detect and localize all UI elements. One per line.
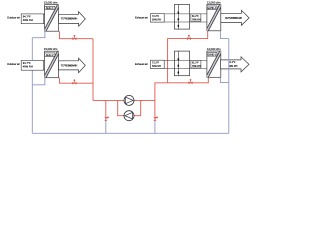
wire duct connector 1 — [43, 14, 44, 23]
AHU-2 wheel diagonal — [43, 50, 60, 79]
ERU-2 wheel diagonal — [206, 50, 223, 79]
valve V2 — [72, 79, 76, 84]
svg-text:61.2°F: 61.2°F — [192, 16, 199, 18]
supply arrow 1 — [59, 12, 86, 27]
AHU-2 casing — [45, 51, 59, 77]
wire drain tails — [106, 121, 155, 133]
wire duct connector 2 — [43, 61, 44, 70]
wire right drain drop — [154, 100, 156, 116]
AHU-2 label box — [45, 53, 55, 57]
AHU-1 wheel diagonal — [43, 3, 60, 32]
svg-text:EAHU-1: EAHU-1 — [208, 7, 217, 10]
svg-text:49% RH: 49% RH — [23, 18, 33, 22]
wire exhaust duct lines 1 — [150, 14, 207, 22]
svg-text:94.7°F: 94.7°F — [23, 15, 31, 19]
svg-text:50% RH: 50% RH — [152, 65, 161, 68]
svg-text:15,000 cfm: 15,000 cfm — [44, 47, 58, 51]
ERU-1 wheel diagonal — [206, 3, 223, 32]
node EA state box 2 — [150, 60, 164, 68]
coil C2 tube line — [177, 51, 179, 76]
svg-text:76% RH: 76% RH — [192, 20, 201, 22]
coil C1 casing — [174, 5, 189, 30]
AHU-1 casing — [45, 5, 59, 32]
ERU-1 label box — [207, 6, 217, 10]
coil C1 tube line — [177, 5, 179, 30]
node OA state box 1 — [21, 14, 43, 24]
svg-text:12,000 cfm: 12,000 cfm — [207, 47, 221, 51]
svg-text:12,000 cfm: 12,000 cfm — [207, 1, 221, 5]
svg-text:61.2°F: 61.2°F — [192, 63, 199, 65]
wire AHU-2 coil return — [32, 78, 45, 85]
wire main supply header — [93, 99, 155, 101]
ERU-2 casing — [207, 51, 221, 77]
exhaust arrow 1 — [221, 10, 249, 25]
wire left drain drop — [105, 100, 107, 116]
svg-text:Outdoor air: Outdoor air — [7, 62, 20, 66]
coil C2 casing — [174, 51, 189, 76]
wire riser to ERU-2 — [155, 77, 208, 100]
coil C1 diamonds — [177, 11, 179, 28]
ERU-2 label box — [207, 53, 217, 57]
valve V4 — [189, 79, 193, 84]
svg-text:77.7°F/DB/65% RH: 77.7°F/DB/65% RH — [61, 18, 78, 21]
wire AHU-1 coil supply — [60, 31, 94, 39]
svg-text:Exhaust air: Exhaust air — [135, 62, 148, 66]
svg-text:49% RH: 49% RH — [23, 65, 33, 69]
svg-text:77.7°F/DB/65% RH: 77.7°F/DB/65% RH — [61, 64, 78, 67]
wire left return main — [31, 38, 33, 134]
valve V3 — [187, 35, 191, 40]
ERU-1 casing — [207, 4, 221, 30]
svg-text:AHU-1: AHU-1 — [46, 6, 54, 10]
node EA state box 1 — [150, 14, 164, 22]
svg-text:94.7°F: 94.7°F — [23, 61, 31, 65]
svg-text:50% RH: 50% RH — [152, 19, 161, 22]
pump P2 — [124, 111, 134, 121]
AHU-1 label box — [45, 6, 55, 10]
node mid state box 2 — [191, 60, 201, 68]
node mid state box 1 — [191, 14, 201, 22]
svg-text:AHU-2: AHU-2 — [46, 53, 54, 57]
exhaust arrow 2 — [221, 57, 250, 72]
valve V6 — [153, 117, 158, 121]
svg-text:76% RH: 76% RH — [192, 66, 201, 68]
valve V1 — [72, 35, 76, 40]
supply arrow 2 — [59, 58, 86, 73]
wire AHU-2 coil supply — [60, 78, 94, 84]
wire bottom return main — [32, 132, 229, 134]
svg-text:Exhaust air: Exhaust air — [135, 15, 148, 19]
wire AHU-1 coil return — [32, 31, 45, 38]
wire exhaust duct lines 2 — [150, 60, 207, 68]
svg-text:15,000 cfm: 15,000 cfm — [44, 1, 58, 5]
svg-text:83.7°F/DB/66% RH: 83.7°F/DB/66% RH — [225, 18, 242, 20]
svg-text:61.2°F: 61.2°F — [228, 61, 236, 64]
wire pump bypass — [118, 100, 141, 115]
coil C2 diamonds — [177, 57, 179, 74]
node OA state box 2 — [21, 60, 43, 70]
svg-text:69% RH: 69% RH — [228, 65, 237, 68]
wire riser to ERU-1 — [168, 31, 208, 83]
pump P1 — [124, 95, 134, 105]
svg-text:Outdoor air: Outdoor air — [7, 16, 20, 20]
valve V5 — [104, 117, 109, 121]
svg-text:EAHU-2: EAHU-2 — [208, 53, 217, 56]
wire left riser — [92, 39, 94, 101]
wire right return main — [220, 31, 228, 134]
